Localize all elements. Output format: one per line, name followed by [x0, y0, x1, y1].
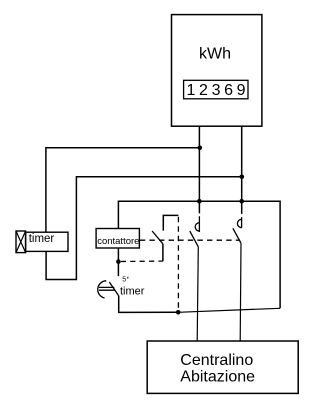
switch S1 blade — [190, 231, 199, 247]
svg-text:Abitazione: Abitazione — [180, 369, 255, 386]
contactor K1 coil box — [96, 229, 139, 249]
kWh meter box — [172, 15, 262, 127]
wire: switch S2 to centralino — [239, 243, 242, 341]
switch S1 fixed contact hook — [195, 216, 199, 232]
meter display box — [184, 80, 248, 99]
timer contact KT1 blade — [109, 282, 118, 296]
node: junction dot wire C x right lead — [239, 199, 244, 204]
wire: bottom return wire (slanted) — [178, 308, 280, 312]
timer T1 body box — [26, 232, 68, 251]
svg-text:contattore: contattore — [97, 236, 139, 247]
timer contact KT1 delay symbol lines — [99, 287, 114, 290]
label 5-minute tick — [127, 277, 129, 279]
timer contact KT1 bottom lead — [119, 296, 179, 313]
node: junction dot wire A x left lead — [198, 146, 203, 151]
wire: right meter lead (down from meter) — [241, 126, 243, 214]
node: junction dot coil lead x aux linkage — [116, 259, 121, 264]
aux contact K1a bottom lead — [162, 244, 164, 261]
centralino abitazione box — [147, 341, 298, 393]
wire: switch S1 to centralino — [197, 247, 198, 341]
wire: left meter lead (down from meter) — [198, 126, 200, 213]
wire A: horizontal from left lead to timer branch — [46, 148, 200, 232]
aux contact K1a top bar — [163, 215, 178, 230]
dashed vertical linkage — [177, 217, 179, 311]
dashed linkage aux to coil — [121, 260, 163, 262]
timer T1 crossed terminal box — [16, 231, 26, 253]
aux contact K1a blade — [152, 231, 163, 244]
svg-text:1 2 3 6 9: 1 2 3 6 9 — [187, 82, 246, 99]
svg-text:Centralino: Centralino — [180, 352, 253, 369]
node: junction dot wire C x left lead — [197, 199, 202, 204]
wire C: coil supply rail — [118, 201, 280, 308]
node: junction dot wire B x right lead — [240, 175, 245, 180]
svg-text:timer: timer — [120, 286, 145, 298]
svg-text:5: 5 — [122, 276, 126, 283]
node: junction dot bottom wire x dashed link — [176, 310, 181, 315]
wire B: horizontal from right lead to left riser — [46, 177, 242, 280]
svg-text:timer: timer — [29, 233, 55, 245]
dashed mechanical linkage horizontal — [140, 239, 240, 241]
wire: coil bottom lead — [117, 248, 119, 276]
timer T1 crossed box X — [16, 231, 26, 253]
timer contact KT1 delay symbol arc — [98, 281, 107, 298]
switch S2 fixed contact hook — [237, 217, 241, 228]
switch S2 blade — [233, 228, 241, 243]
svg-text:kWh: kWh — [199, 46, 231, 63]
